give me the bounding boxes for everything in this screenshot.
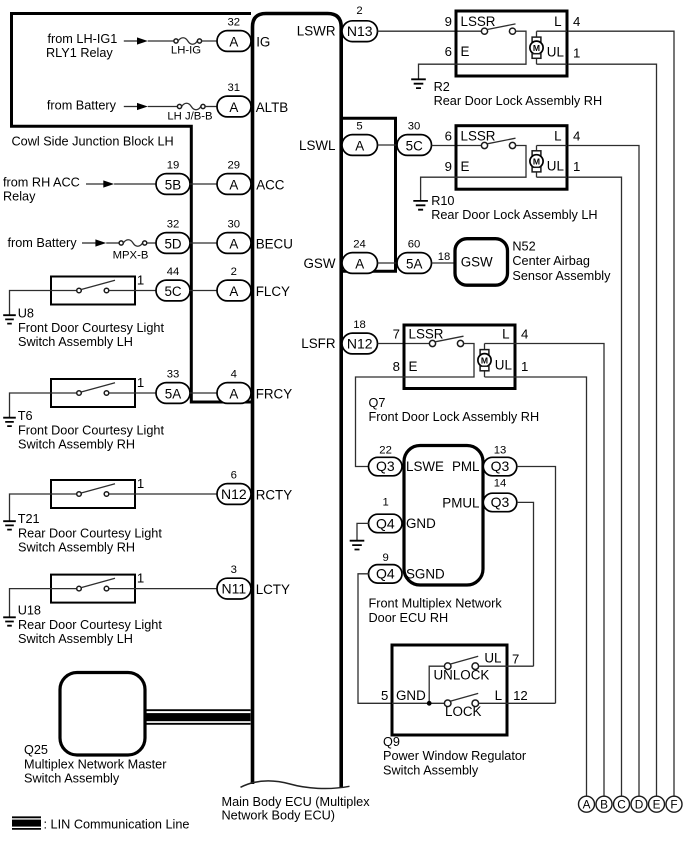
svg-text:32: 32 — [228, 16, 241, 28]
svg-text:29: 29 — [228, 159, 241, 171]
svg-text:Power Window Regulator: Power Window Regulator — [383, 749, 527, 763]
svg-text:5: 5 — [381, 688, 388, 703]
svg-text:LSSR: LSSR — [409, 326, 444, 341]
power window regulator switch Q9 box — [392, 645, 507, 735]
svg-text:GSW: GSW — [304, 256, 336, 271]
wire fuse to pin — [202, 40, 218, 42]
svg-text:9: 9 — [382, 552, 388, 564]
wire T21 to ground — [10, 494, 52, 521]
svg-text:Front Door Lock Assembly RH: Front Door Lock Assembly RH — [369, 410, 540, 424]
ground U8 — [3, 315, 16, 323]
svg-text:1: 1 — [137, 476, 144, 491]
svg-text:19: 19 — [167, 159, 180, 171]
fuse LH-IG — [174, 39, 178, 43]
wire arrow to fuse — [148, 40, 174, 42]
switch U8 contacts — [51, 290, 77, 292]
pin 44 connector 5C — [156, 280, 190, 301]
ground R2 — [411, 79, 426, 88]
svg-text:Front Multiplex Network: Front Multiplex Network — [369, 597, 503, 611]
switch U18 box — [51, 575, 135, 603]
svg-text:Relay: Relay — [3, 190, 36, 204]
svg-text:2: 2 — [356, 5, 362, 17]
svg-text:9: 9 — [445, 14, 452, 29]
pin 1 connector Q4 (GND) — [369, 514, 403, 533]
svg-text:Sensor Assembly: Sensor Assembly — [512, 269, 611, 283]
svg-text:LSFR: LSFR — [301, 336, 336, 351]
pin 33 connector 5A — [156, 383, 190, 404]
svg-text:1: 1 — [137, 375, 144, 390]
svg-text:4: 4 — [573, 128, 580, 143]
svg-text:A: A — [355, 257, 364, 272]
svg-text:FRCY: FRCY — [256, 387, 293, 402]
svg-text:5B: 5B — [165, 178, 181, 193]
wire fuse to pin — [205, 106, 218, 108]
wire arrow to fuse — [148, 106, 178, 108]
svg-text:M: M — [533, 157, 540, 167]
svg-text:Switch Assembly: Switch Assembly — [24, 772, 120, 786]
svg-text:8: 8 — [393, 359, 400, 374]
pin 29 connector A (ACC) — [217, 174, 251, 195]
svg-text:1: 1 — [573, 45, 580, 60]
R10 motor M — [536, 146, 538, 178]
Q7 wire switch to E — [404, 344, 474, 378]
switch T6 contacts — [51, 392, 77, 394]
svg-text:9: 9 — [445, 159, 452, 174]
wire U8 to 5C pin 1 — [135, 290, 156, 292]
svg-text:Front Door Courtesy Light: Front Door Courtesy Light — [18, 423, 164, 437]
svg-text:Switch Assembly: Switch Assembly — [383, 763, 479, 777]
svg-text:N52: N52 — [512, 240, 535, 254]
svg-text:M: M — [481, 355, 488, 365]
svg-text:30: 30 — [228, 218, 241, 230]
svg-text:from LH-IG1: from LH-IG1 — [48, 32, 118, 46]
pin 19 connector 5B — [156, 174, 190, 195]
Q9 unlock branch wire — [429, 666, 444, 703]
svg-text:30: 30 — [408, 120, 421, 132]
ground T6 — [3, 418, 16, 426]
svg-text:from Battery: from Battery — [8, 236, 78, 250]
svg-text:A: A — [355, 139, 364, 154]
svg-text:FLCY: FLCY — [256, 284, 290, 299]
svg-text:7: 7 — [393, 326, 400, 341]
wire T21 to N12 pin 1 — [135, 493, 218, 495]
svg-text:PMUL: PMUL — [442, 496, 479, 511]
svg-text:BECU: BECU — [256, 237, 293, 252]
center airbag sensor GSW block N52 — [455, 239, 508, 286]
svg-text:A: A — [229, 387, 238, 402]
svg-text:2: 2 — [231, 266, 237, 278]
pin 2 connector A (FLCY) — [217, 280, 251, 301]
svg-text:12: 12 — [513, 688, 528, 703]
svg-text:LOCK: LOCK — [445, 704, 482, 719]
svg-text:5A: 5A — [406, 257, 422, 272]
svg-text:Network Body ECU): Network Body ECU) — [222, 809, 336, 823]
pin 2 connector N13 (LSWR) — [342, 21, 378, 42]
svg-text:13: 13 — [494, 445, 507, 457]
wire arrow to 5B — [114, 183, 156, 185]
svg-text:60: 60 — [408, 238, 421, 250]
Q9 UNLOCK switch — [444, 663, 451, 670]
svg-text:A: A — [229, 178, 238, 193]
svg-text:UL: UL — [547, 159, 564, 174]
svg-text:ACC: ACC — [256, 178, 285, 193]
ground T21 — [3, 521, 16, 529]
wire ALTB feed — [124, 106, 137, 108]
wire IG feed — [124, 40, 137, 42]
svg-text:ALTB: ALTB — [256, 100, 289, 115]
svg-text:4: 4 — [521, 326, 528, 341]
Q9 wire pin 7 out — [507, 665, 534, 667]
svg-text:Front Door Courtesy Light: Front Door Courtesy Light — [18, 321, 164, 335]
svg-text:A: A — [229, 35, 238, 50]
wire Q7 E to LSWE — [356, 377, 405, 467]
svg-text:Q3: Q3 — [491, 494, 510, 510]
svg-text:1: 1 — [573, 159, 580, 174]
R2 wire switch to E — [456, 31, 526, 64]
Q7 motor M — [484, 344, 486, 378]
svg-text:1: 1 — [382, 497, 388, 509]
connector C — [614, 796, 630, 812]
pin 31 connector A (ALTB) — [217, 96, 251, 117]
svg-text:D: D — [635, 798, 644, 812]
switch U18 contacts — [51, 588, 77, 590]
wire ACC feed — [86, 183, 104, 185]
connector F — [666, 796, 682, 812]
svg-text:Q3: Q3 — [376, 458, 395, 474]
svg-text:N11: N11 — [221, 581, 246, 597]
ground R10 — [413, 201, 428, 210]
svg-text:N13: N13 — [347, 23, 373, 39]
wire U18 to ground — [10, 589, 52, 617]
svg-text:5D: 5D — [164, 237, 181, 252]
svg-text:Q9: Q9 — [383, 735, 400, 749]
svg-text:N12: N12 — [347, 336, 373, 352]
R2 switch LSSR — [481, 28, 487, 34]
svg-text:Q7: Q7 — [369, 396, 386, 410]
svg-text:N12: N12 — [221, 486, 247, 502]
svg-text:Rear Door Courtesy Light: Rear Door Courtesy Light — [18, 618, 162, 632]
wire 5A to GSW block pin 18 — [432, 262, 456, 264]
svg-text:LCTY: LCTY — [256, 582, 290, 597]
connector E — [649, 796, 665, 812]
svg-text:33: 33 — [167, 368, 180, 380]
wire R10 pin 4 to connector D — [568, 146, 639, 797]
svg-text:3: 3 — [231, 564, 237, 576]
Q9 GND row wire — [392, 702, 444, 704]
svg-text:LSWR: LSWR — [297, 24, 336, 39]
Q7 door lock assembly box — [404, 325, 515, 389]
svg-text:U18: U18 — [18, 604, 41, 618]
svg-text:GND: GND — [396, 688, 426, 703]
svg-text:Multiplex Network Master: Multiplex Network Master — [24, 757, 167, 771]
svg-text:1: 1 — [137, 571, 144, 586]
front multiplex network door ECU RH block — [404, 446, 483, 586]
wire 5D to A — [190, 242, 219, 244]
svg-text:Q25: Q25 — [24, 743, 48, 757]
svg-text:24: 24 — [353, 238, 366, 250]
pin 32 connector 5D — [156, 233, 190, 254]
arrow BECU — [95, 239, 106, 246]
wire N12 to Q7 pin 7 — [378, 343, 431, 345]
pin 6 connector N12 (RCTY) — [217, 484, 251, 505]
wire U8 to ground — [10, 291, 52, 315]
Q9 wire pin 12 out — [507, 702, 556, 704]
svg-text:B: B — [600, 798, 608, 812]
svg-text:5C: 5C — [164, 284, 181, 299]
legend LIN symbol — [12, 817, 41, 829]
svg-text:Center Airbag: Center Airbag — [512, 254, 590, 268]
svg-text:L: L — [554, 128, 561, 143]
ECU wavy break edge — [241, 781, 350, 789]
svg-text:18: 18 — [353, 319, 366, 331]
wire R2 pin 1 to connector E — [568, 64, 657, 796]
R10 door lock assembly box — [456, 126, 567, 190]
wire PMUL to Q9 pin 7 — [517, 502, 534, 666]
wire Q4 GND to ground — [357, 523, 370, 540]
wire Q4 SGND to Q9 GND — [358, 574, 392, 704]
svg-text:5C: 5C — [406, 139, 423, 154]
svg-text:L: L — [502, 326, 509, 341]
connector A — [579, 796, 595, 812]
pin 14 connector Q3 (PMUL) — [483, 493, 517, 512]
svg-text:Rear Door Lock Assembly RH: Rear Door Lock Assembly RH — [434, 94, 603, 108]
pin 18 connector N12 (LSFR) — [342, 333, 378, 354]
switch T6 box — [51, 379, 135, 407]
svg-text:from Battery: from Battery — [47, 99, 117, 113]
svg-text:5: 5 — [356, 120, 362, 132]
wire 5A to A — [190, 392, 219, 394]
svg-text:LSWL: LSWL — [299, 138, 335, 153]
wire Q7 pin 4 to connector B — [515, 344, 604, 797]
R2 inside wires L and UL — [537, 31, 568, 64]
svg-text:LSWE: LSWE — [406, 459, 444, 474]
Q9 wire UNLOCK to pin 7 — [479, 665, 507, 667]
svg-text:E: E — [653, 798, 661, 812]
svg-text:5A: 5A — [165, 387, 181, 402]
svg-text:1: 1 — [137, 272, 144, 287]
svg-text:SGND: SGND — [406, 567, 445, 582]
pin 30 connector 5C (right) — [397, 135, 432, 156]
pin 32 connector A (IG) — [217, 31, 251, 52]
multiplex network master switch Q25 block — [60, 673, 145, 756]
pin 30 connector A (BECU) — [217, 233, 251, 254]
svg-text:Cowl Side Junction Block LH: Cowl Side Junction Block LH — [12, 135, 174, 149]
svg-text:UL: UL — [495, 358, 512, 373]
svg-text:R2: R2 — [434, 80, 450, 94]
svg-text:Door ECU RH: Door ECU RH — [369, 611, 449, 625]
svg-text:U8: U8 — [18, 307, 34, 321]
connector D — [631, 796, 647, 812]
main body ECU U-outline — [253, 14, 342, 789]
wire A to 5C — [378, 144, 399, 146]
fuse MPX-B — [119, 241, 123, 245]
wire R10 pin 1 to connector C — [568, 177, 622, 796]
svg-text:Q3: Q3 — [491, 458, 510, 474]
svg-text:6: 6 — [445, 44, 452, 59]
svg-text:RLY1 Relay: RLY1 Relay — [46, 46, 113, 60]
switch T21 box — [51, 480, 135, 508]
pin 13 connector Q3 (PML) — [483, 457, 517, 476]
LIN communication line Q25 to ECU — [147, 710, 251, 724]
wire PML to Q9 pin 12 — [517, 467, 556, 704]
wire R2 pin 4 to connector F — [568, 31, 674, 796]
svg-text:Main Body ECU (Multiplex: Main Body ECU (Multiplex — [222, 795, 371, 809]
junction dot Q9 — [427, 701, 432, 706]
svg-text:LH-IG: LH-IG — [171, 45, 201, 57]
svg-text:Switch Assembly RH: Switch Assembly RH — [18, 541, 135, 555]
svg-text:44: 44 — [167, 266, 180, 278]
wire A to 5A — [378, 262, 399, 264]
svg-text:GSW: GSW — [461, 255, 493, 270]
svg-text:LH J/B-B: LH J/B-B — [167, 111, 212, 123]
svg-text:31: 31 — [228, 82, 241, 94]
svg-text:22: 22 — [379, 445, 392, 457]
ground Q4 — [350, 541, 365, 550]
R2 motor M — [536, 31, 538, 64]
pin 9 connector Q4 (SGND) — [369, 565, 403, 584]
wire arrow to fuse — [106, 242, 119, 244]
arrow ACC — [103, 180, 114, 187]
wire BECU feed — [82, 242, 96, 244]
wire T6 to ground — [10, 393, 52, 417]
svg-text:6: 6 — [445, 128, 452, 143]
svg-text:Rear Door Lock Assembly LH: Rear Door Lock Assembly LH — [431, 208, 597, 222]
svg-text:4: 4 — [573, 14, 580, 29]
svg-text:18: 18 — [438, 251, 451, 263]
svg-text:32: 32 — [167, 218, 180, 230]
connector B — [596, 796, 612, 812]
wire N13 to R2 pin 9 — [378, 30, 482, 32]
svg-text:L: L — [495, 688, 502, 703]
svg-text:UL: UL — [484, 650, 501, 665]
R2 door lock assembly box — [456, 11, 567, 76]
svg-text:T6: T6 — [18, 409, 33, 423]
wire 5B to A — [190, 183, 219, 185]
wire R2 E to ground — [419, 64, 457, 78]
wire T6 to 5A pin 1 — [135, 392, 156, 394]
wire Q7 pin 1 to connector A — [515, 377, 587, 796]
svg-text:GND: GND — [406, 516, 436, 531]
switch U8 box — [51, 277, 135, 305]
svg-text:: LIN Communication Line: : LIN Communication Line — [44, 818, 190, 832]
svg-text:Switch Assembly RH: Switch Assembly RH — [18, 438, 135, 452]
svg-text:A: A — [583, 798, 591, 812]
svg-text:F: F — [670, 798, 677, 812]
pin 5 connector A (LSWL) — [342, 135, 378, 156]
svg-text:R10: R10 — [431, 194, 454, 208]
wire 5C to R10 pin 6 — [432, 145, 482, 147]
R10 inside wires L and UL — [537, 146, 568, 178]
svg-text:L: L — [554, 14, 561, 29]
pin 4 connector A (FRCY) — [217, 383, 251, 404]
svg-text:E: E — [461, 44, 470, 59]
svg-text:UL: UL — [547, 44, 564, 59]
svg-text:RCTY: RCTY — [256, 488, 293, 503]
svg-text:T21: T21 — [18, 512, 40, 526]
pin 22 connector Q3 (LSWE) — [369, 457, 403, 476]
arrow IG — [137, 37, 148, 44]
svg-text:MPX-B: MPX-B — [113, 249, 149, 261]
junction block right column box — [342, 118, 396, 271]
svg-text:A: A — [229, 100, 238, 115]
svg-text:from RH ACC: from RH ACC — [3, 176, 80, 190]
cowl side junction block LH outline — [12, 14, 252, 403]
svg-text:1: 1 — [521, 359, 528, 374]
svg-text:14: 14 — [494, 478, 507, 490]
switch T21 contacts — [51, 493, 77, 495]
arrow ALTB — [137, 103, 148, 110]
svg-text:Switch Assembly LH: Switch Assembly LH — [18, 335, 133, 349]
svg-text:PML: PML — [452, 459, 480, 474]
svg-text:E: E — [409, 359, 418, 374]
svg-text:4: 4 — [231, 368, 237, 380]
svg-text:M: M — [533, 43, 540, 53]
svg-text:A: A — [229, 237, 238, 252]
svg-text:Switch Assembly LH: Switch Assembly LH — [18, 632, 133, 646]
Q9 LOCK switch — [444, 700, 451, 707]
svg-text:LSSR: LSSR — [461, 128, 496, 143]
svg-text:6: 6 — [231, 469, 237, 481]
pin 60 connector 5A (right) — [397, 253, 432, 274]
Q7 inside wires L and UL — [485, 344, 516, 378]
wire U18 to N11 pin 1 — [135, 588, 218, 590]
svg-text:C: C — [617, 798, 626, 812]
svg-text:IG: IG — [256, 35, 270, 50]
Q9 wire LOCK to pin 12 — [479, 702, 507, 704]
svg-text:A: A — [229, 284, 238, 299]
wire fuse to 5D — [147, 242, 156, 244]
wire 5C to A — [190, 290, 219, 292]
svg-text:E: E — [461, 159, 470, 174]
ground U18 — [3, 617, 16, 625]
svg-text:7: 7 — [512, 652, 519, 667]
Q7 switch LSSR — [429, 340, 435, 346]
R10 wire switch to E — [456, 146, 526, 178]
fuse LH J/B-B — [177, 104, 181, 108]
svg-text:UNLOCK: UNLOCK — [434, 667, 490, 682]
wire R10 E to ground — [421, 177, 456, 200]
svg-text:Q4: Q4 — [376, 515, 395, 531]
pin 3 connector N11 (LCTY) — [217, 578, 251, 599]
R10 switch LSSR — [481, 142, 487, 148]
svg-text:Rear Door Courtesy Light: Rear Door Courtesy Light — [18, 526, 162, 540]
svg-text:Q4: Q4 — [376, 566, 395, 582]
svg-text:LSSR: LSSR — [461, 14, 496, 29]
pin 24 connector A (GSW) — [342, 253, 378, 274]
